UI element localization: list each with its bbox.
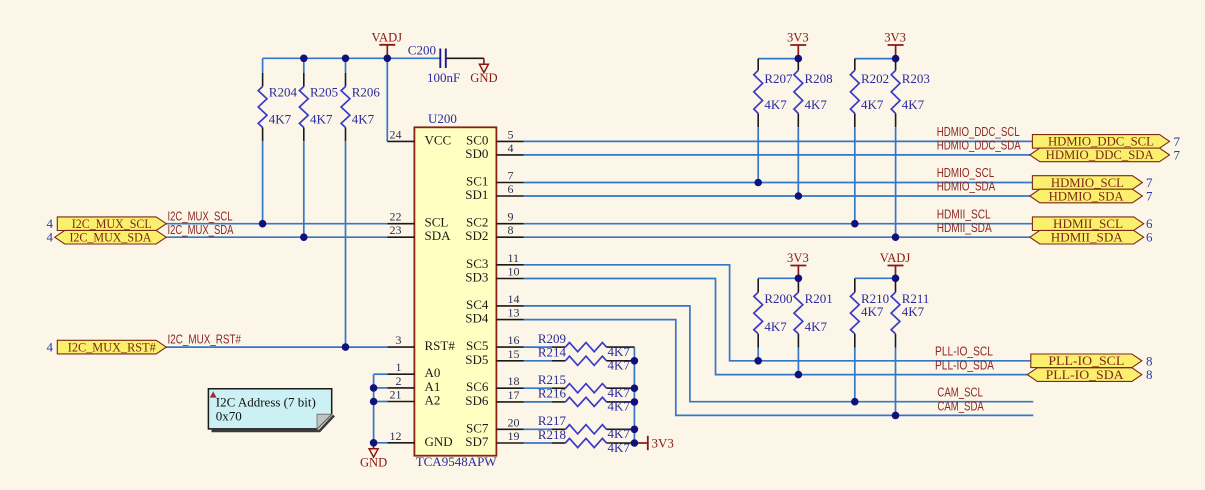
svg-text:R200: R200 (764, 291, 792, 306)
svg-text:TCA9548APW: TCA9548APW (416, 454, 498, 469)
resistor R202 (850, 59, 889, 224)
wire PLL-IO_SCL net (from SC3) (524, 265, 1031, 361)
svg-text:8: 8 (508, 223, 514, 237)
svg-text:GND: GND (470, 71, 497, 85)
wire HDMII_SCL net (524, 223, 1033, 225)
svg-text:17: 17 (508, 388, 520, 402)
resistor R218 (524, 427, 635, 455)
svg-text:3V3: 3V3 (652, 435, 674, 450)
svg-text:VADJ: VADJ (880, 251, 911, 265)
svg-text:10: 10 (508, 265, 520, 279)
svg-text:3V3: 3V3 (787, 31, 809, 45)
power 3V3 (top right 1) (787, 31, 809, 59)
svg-text:7: 7 (508, 169, 514, 183)
svg-text:4K7: 4K7 (861, 97, 884, 112)
svg-text:2: 2 (396, 374, 402, 388)
svg-text:HDMII_SDA: HDMII_SDA (1051, 230, 1124, 245)
svg-text:SD3: SD3 (465, 270, 488, 285)
svg-text:SD2: SD2 (465, 228, 488, 243)
svg-text:8: 8 (1146, 353, 1153, 368)
svg-text:13: 13 (508, 306, 520, 320)
wire top-right 3V3 stubs (758, 58, 895, 60)
wire HDMIO_DDC_SDA net (524, 154, 1031, 156)
svg-text:SD7: SD7 (465, 434, 489, 449)
U200 left pin stubs (387, 141, 414, 442)
svg-text:4K7: 4K7 (352, 112, 375, 127)
svg-text:4K7: 4K7 (608, 399, 631, 414)
svg-text:11: 11 (508, 251, 520, 265)
svg-text:SD4: SD4 (465, 311, 489, 326)
power 3V3 (top right 2) (884, 31, 906, 59)
svg-text:4K7: 4K7 (608, 440, 631, 455)
wire VADJ top rail (263, 58, 441, 141)
svg-text:4K7: 4K7 (861, 304, 884, 319)
svg-text:16: 16 (508, 333, 520, 347)
svg-text:3V3: 3V3 (884, 31, 906, 45)
svg-text:4K7: 4K7 (805, 97, 828, 112)
svg-text:I2C_MUX_SDA: I2C_MUX_SDA (69, 230, 152, 245)
wire A0/A1/A2 to GND net (374, 374, 388, 443)
svg-text:HDMIO_SDA: HDMIO_SDA (1049, 188, 1125, 203)
wire CAM_SDA net (from SD4) (524, 320, 1034, 416)
svg-text:14: 14 (508, 292, 520, 306)
svg-text:VCC: VCC (425, 132, 452, 147)
svg-text:PLL-IO_SCL: PLL-IO_SCL (935, 344, 993, 359)
svg-text:4K7: 4K7 (805, 319, 828, 334)
resistor R201 (794, 278, 833, 374)
svg-text:SDA: SDA (425, 228, 452, 243)
svg-text:4K7: 4K7 (310, 112, 333, 127)
svg-text:R202: R202 (861, 71, 889, 86)
resistor R207 (754, 59, 793, 183)
svg-text:19: 19 (508, 429, 520, 443)
svg-text:7: 7 (1174, 148, 1181, 163)
wire HDMII_SDA net (524, 236, 1031, 238)
svg-text:15: 15 (508, 347, 520, 361)
svg-text:21: 21 (390, 388, 402, 402)
resistor R210 (850, 278, 889, 401)
resistor R211 (891, 278, 929, 415)
U200 right pin names (465, 132, 489, 449)
port HDMIO_DDC_SDA (1030, 147, 1170, 162)
svg-text:R206: R206 (352, 85, 381, 100)
svg-text:R218: R218 (538, 427, 566, 442)
port HDMIO_DDC_SCL (1032, 134, 1169, 149)
svg-text:GND: GND (360, 455, 387, 469)
svg-text:U200: U200 (428, 111, 457, 126)
port PLL-IO_SDA (1027, 367, 1142, 382)
svg-text:R208: R208 (805, 71, 833, 86)
svg-text:6: 6 (508, 182, 514, 196)
resistor R204 (258, 58, 297, 223)
svg-text:GND: GND (425, 434, 453, 449)
svg-text:HDMIO_DDC_SDA: HDMIO_DDC_SDA (937, 138, 1021, 153)
power VADJ (mid right) (880, 251, 911, 278)
port I2C_MUX_SDA (55, 230, 167, 245)
svg-text:4: 4 (47, 339, 54, 354)
svg-text:6: 6 (1146, 230, 1153, 245)
svg-text:PLL-IO_SDA: PLL-IO_SDA (935, 358, 994, 373)
svg-text:3: 3 (396, 333, 402, 347)
svg-text:1: 1 (396, 360, 402, 374)
svg-text:SD0: SD0 (465, 146, 488, 161)
port HDMII_SDA (1030, 230, 1144, 245)
svg-text:5: 5 (508, 127, 514, 141)
svg-text:R207: R207 (764, 71, 793, 86)
svg-text:23: 23 (390, 223, 402, 237)
resistor R206 (341, 58, 380, 347)
svg-text:RST#: RST# (425, 338, 456, 353)
svg-text:SD5: SD5 (465, 352, 488, 367)
svg-text:CAM_SDA: CAM_SDA (937, 398, 984, 413)
svg-text:4K7: 4K7 (764, 97, 787, 112)
port PLL-IO_SCL (1031, 353, 1142, 368)
svg-text:18: 18 (508, 374, 520, 388)
op-amp/IC U200 TCA9548APW body (414, 111, 497, 469)
resistor R208 (794, 59, 833, 196)
port I2C_MUX_SCL (57, 216, 166, 231)
svg-text:R216: R216 (538, 386, 567, 401)
svg-text:PLL-IO_SCL: PLL-IO_SCL (1048, 353, 1124, 368)
wire HDMIO_SCL net (524, 182, 1033, 184)
svg-text:R203: R203 (902, 71, 930, 86)
svg-text:C200: C200 (408, 43, 436, 58)
wire mid-right 3V3/VADJ stubs (758, 277, 895, 279)
capacitor C200 100nF (408, 43, 460, 85)
wire I2C_MUX_SCL net (166, 223, 387, 225)
svg-text:SD1: SD1 (465, 187, 488, 202)
svg-text:4: 4 (47, 230, 54, 245)
svg-text:HDMIO_DDC_SDA: HDMIO_DDC_SDA (1046, 147, 1155, 162)
svg-text:SD6: SD6 (465, 393, 489, 408)
wire PLL-IO_SDA net (from SD3) (524, 279, 1029, 375)
net labels (168, 124, 1021, 413)
resistor R216 (524, 386, 635, 414)
svg-text:4K7: 4K7 (269, 112, 292, 127)
svg-text:9: 9 (508, 210, 514, 224)
svg-text:VADJ: VADJ (372, 31, 403, 45)
ground (U200 GND pin) (360, 443, 387, 470)
resistor R203 (891, 59, 930, 238)
svg-text:4K7: 4K7 (608, 358, 631, 373)
svg-text:20: 20 (508, 415, 520, 429)
svg-text:7: 7 (1146, 189, 1153, 204)
U200 left pin numbers (390, 127, 402, 442)
resistor R217 (524, 413, 635, 441)
svg-text:PLL-IO_SDA: PLL-IO_SDA (1046, 367, 1125, 382)
svg-text:24: 24 (390, 127, 402, 141)
svg-text:3V3: 3V3 (787, 251, 809, 265)
svg-text:0x70: 0x70 (216, 409, 242, 424)
svg-text:4K7: 4K7 (902, 97, 925, 112)
svg-text:I2C_MUX_RST#: I2C_MUX_RST# (68, 339, 156, 354)
svg-text:I2C_MUX_RST#: I2C_MUX_RST# (168, 332, 242, 347)
svg-text:8: 8 (1146, 367, 1153, 382)
U200 right pin stubs (496, 141, 523, 443)
svg-text:22: 22 (390, 210, 402, 224)
resistor R205 (299, 58, 338, 237)
resistor R200 (754, 278, 793, 361)
svg-text:I2C Address (7 bit): I2C Address (7 bit) (216, 394, 316, 409)
wire HDMIO_DDC_SCL net (524, 140, 1033, 142)
U200 right pin numbers (508, 127, 520, 443)
svg-text:4: 4 (508, 141, 514, 155)
wire I2C_MUX_SDA net (166, 236, 387, 238)
svg-text:HDMIO_SDA: HDMIO_SDA (937, 179, 996, 194)
svg-text:12: 12 (390, 429, 402, 443)
svg-text:100nF: 100nF (427, 70, 460, 85)
resistor R214 (524, 345, 635, 373)
svg-text:HDMII_SDA: HDMII_SDA (937, 220, 992, 235)
wire 3V3 pull-up rail (right of R209..R218) (633, 347, 635, 443)
svg-text:R201: R201 (805, 291, 833, 306)
wire I2C_MUX_RST# net (166, 346, 387, 348)
svg-text:4K7: 4K7 (764, 319, 787, 334)
power 3V3 (right-facing, pull-up rail) (634, 435, 673, 450)
power VADJ (top) (372, 31, 403, 59)
wire CAM_SCL net (from SC4) (524, 306, 1034, 402)
port HDMIO_SCL (1032, 175, 1142, 190)
wire HDMIO_SDA net (524, 195, 1031, 197)
svg-text:R204: R204 (269, 85, 298, 100)
wire C200 to GND (net GND) (446, 57, 484, 59)
ground (near C200) (470, 58, 497, 85)
power 3V3 (mid right) (787, 251, 809, 278)
port HDMIO_SDA (1030, 188, 1143, 203)
resistor R209 (524, 331, 635, 359)
svg-text:R205: R205 (310, 85, 338, 100)
port I2C_MUX_RST# (57, 339, 166, 354)
port HDMII_SCL (1032, 216, 1143, 231)
sheet numbers next to ports (47, 134, 1181, 382)
svg-text:4K7: 4K7 (902, 304, 925, 319)
U200 left pin names (425, 132, 456, 448)
note I2C Address (7 bit) 0x70 (208, 389, 334, 431)
svg-text:A2: A2 (425, 393, 441, 408)
svg-text:R214: R214 (538, 345, 567, 360)
svg-text:I2C_MUX_SDA: I2C_MUX_SDA (168, 222, 234, 237)
resistor R215 (524, 372, 635, 400)
